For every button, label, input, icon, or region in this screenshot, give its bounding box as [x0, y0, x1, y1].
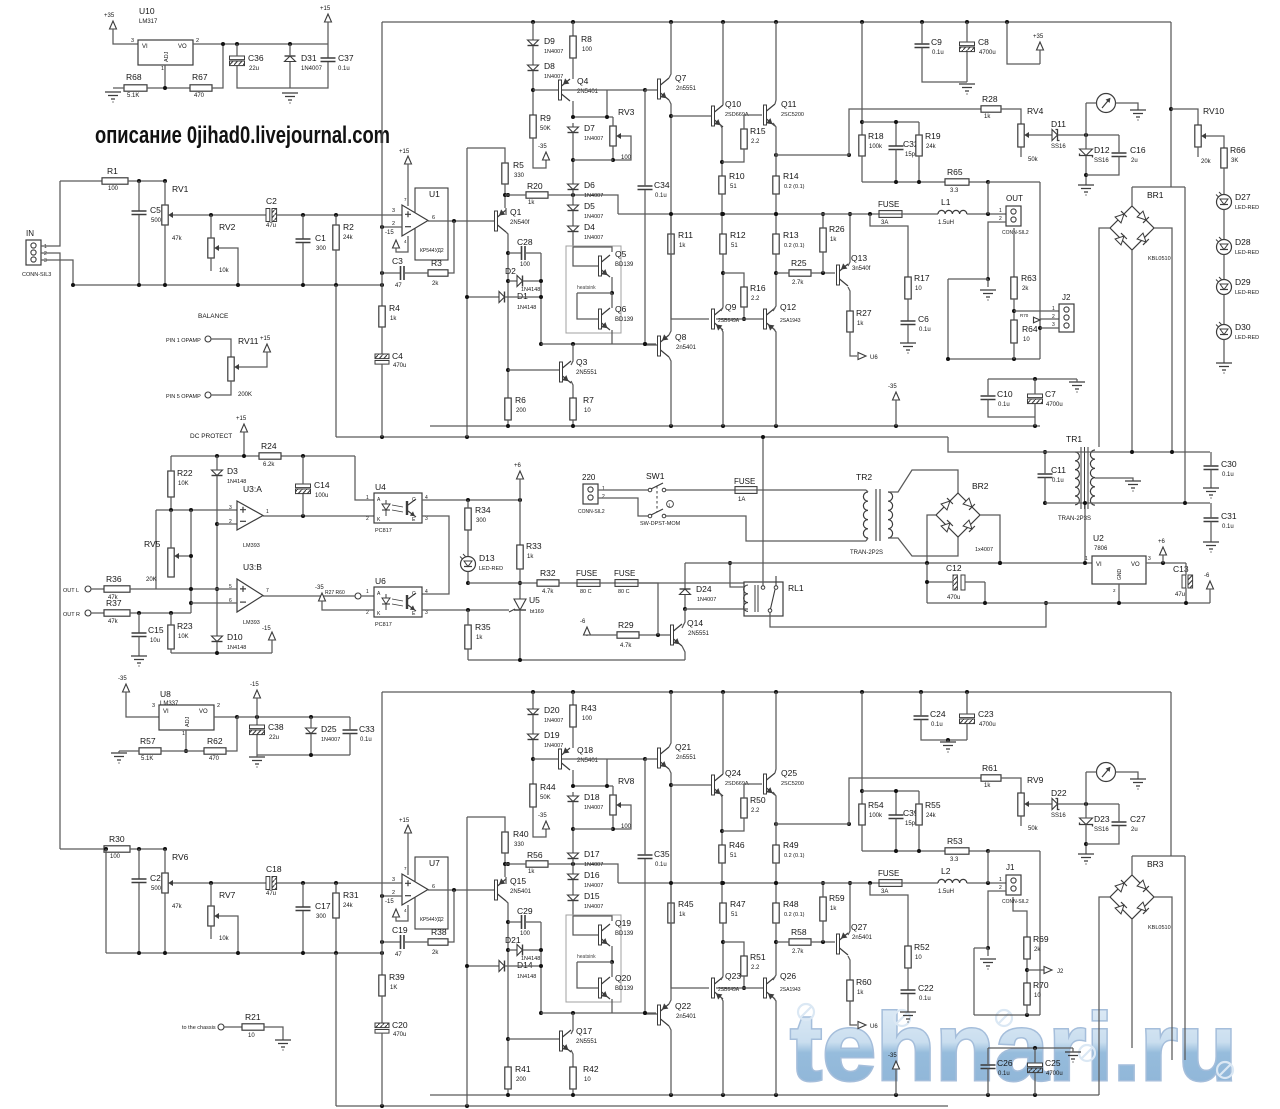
wire: [1223, 255, 1225, 280]
wire: [256, 698, 258, 725]
wire: [600, 582, 615, 584]
wire Q18 base: [533, 758, 558, 760]
wire R26 ties: [822, 214, 824, 273]
optocoupler U4: [366, 482, 428, 534]
svg-text:0.2 (0.1): 0.2 (0.1): [784, 184, 805, 190]
wire: [744, 114, 762, 116]
wire: [164, 65, 166, 88]
wire: [572, 1089, 574, 1095]
wire: [948, 358, 1040, 360]
svg-text:R45: R45: [678, 899, 694, 909]
svg-text:R8: R8: [581, 34, 592, 44]
svg-text:C3: C3: [392, 256, 403, 266]
wire: [91, 612, 104, 614]
led D29: [1216, 277, 1259, 296]
resistor R15: [741, 126, 766, 149]
wire: [179, 555, 191, 557]
wire: [722, 923, 724, 971]
power -15 arrow: [269, 632, 276, 640]
svg-text:R68: R68: [126, 72, 142, 82]
svg-text:OUT: OUT: [1006, 194, 1023, 203]
svg-text:C2: C2: [150, 873, 161, 883]
power +15 arrow: [320, 6, 332, 23]
wire Q23 collector: [721, 997, 723, 1095]
svg-text:-35: -35: [315, 585, 324, 591]
wire: [467, 572, 469, 584]
svg-text:2: 2: [196, 38, 199, 44]
wire: [523, 949, 541, 951]
node: [184, 749, 188, 753]
diode D4: [568, 222, 604, 241]
svg-text:RV5: RV5: [144, 539, 161, 549]
transistor Q15: [495, 876, 532, 901]
wire: [611, 946, 613, 962]
wire output line bottom: [618, 882, 879, 884]
svg-text:1N4007: 1N4007: [584, 235, 603, 241]
svg-text:SS16: SS16: [1051, 144, 1066, 150]
wire: [918, 156, 920, 182]
svg-text:R12: R12: [730, 230, 746, 240]
diode D15: [568, 891, 604, 910]
svg-text:Q26: Q26: [780, 971, 796, 981]
svg-text:U3:B: U3:B: [243, 562, 262, 572]
svg-text:BD139: BD139: [615, 317, 634, 323]
svg-text:C9: C9: [931, 37, 942, 47]
wire: [170, 510, 172, 548]
svg-text:C22: C22: [918, 983, 934, 993]
wire C27 loop: [1086, 804, 1119, 844]
node: [571, 827, 575, 831]
svg-text:TRAN-2P3S: TRAN-2P3S: [1058, 516, 1091, 522]
wire: [212, 44, 223, 88]
capacitor C39: [889, 808, 919, 827]
node: [571, 757, 647, 788]
heatsink box bottom: [566, 915, 621, 1002]
svg-text:0.1u: 0.1u: [919, 996, 931, 1002]
ground: [900, 1012, 916, 1019]
svg-text:Q18: Q18: [577, 745, 593, 755]
switch SW1 SW-DPST-MOM: [640, 471, 681, 527]
node: [571, 1011, 647, 1015]
wire VAS feed: [776, 109, 981, 155]
svg-text:80 C: 80 C: [618, 589, 630, 595]
resistor R2: [333, 222, 354, 250]
svg-text:2: 2: [602, 494, 605, 500]
svg-text:CONN-SIL2: CONN-SIL2: [1002, 899, 1029, 905]
wire +35 branch: [1007, 22, 1040, 64]
resistor R61: [981, 763, 1001, 789]
node: [503, 193, 510, 197]
svg-text:U8: U8: [160, 689, 171, 699]
svg-text:6: 6: [432, 884, 435, 890]
svg-text:C37: C37: [338, 53, 354, 63]
node: [1012, 309, 1016, 313]
svg-text:LED-RED: LED-RED: [479, 566, 503, 572]
svg-text:47: 47: [395, 952, 402, 958]
resistor R49: [773, 840, 805, 863]
wire right feed: [1170, 22, 1172, 187]
wire opamp out: [428, 889, 494, 891]
svg-text:RV11: RV11: [238, 336, 259, 346]
resistor R67: [190, 72, 212, 99]
svg-text:D14: D14: [517, 960, 533, 970]
svg-text:R4: R4: [389, 303, 400, 313]
node: [860, 120, 864, 124]
power +15 arrow: [260, 336, 271, 353]
capacitor C11: [1038, 465, 1067, 484]
svg-text:Q23: Q23: [725, 971, 741, 981]
wire C11: [1044, 452, 1046, 503]
wire: [1223, 168, 1225, 195]
svg-text:2u: 2u: [1131, 158, 1138, 164]
svg-text:2k: 2k: [1034, 947, 1041, 953]
svg-text:D4: D4: [584, 222, 595, 232]
svg-text:1N4007: 1N4007: [584, 805, 603, 811]
node: [894, 849, 990, 853]
svg-text:10: 10: [915, 955, 922, 961]
svg-text:bt169: bt169: [530, 609, 544, 615]
wire Q18 collector to Q21: [562, 758, 645, 760]
resistor R33: [517, 541, 542, 569]
wire Q17 collector: [571, 1026, 573, 1034]
svg-text:4700u: 4700u: [1046, 1071, 1063, 1077]
transistor Q10: [712, 99, 749, 127]
wire inner column: [466, 148, 468, 437]
wire Q26 emitter: [773, 971, 776, 980]
wire: [1027, 969, 1044, 971]
node: [1044, 601, 1048, 605]
potentiometer RV10: [1195, 106, 1225, 165]
node: [309, 753, 313, 757]
svg-text:RV4: RV4: [1027, 106, 1044, 116]
svg-text:0.1u: 0.1u: [360, 737, 372, 743]
wire: [722, 818, 744, 831]
wire: [1039, 851, 1041, 1015]
svg-text:J2: J2: [1057, 969, 1064, 975]
wire: [128, 180, 165, 182]
svg-text:220: 220: [582, 473, 596, 482]
svg-text:2.2: 2.2: [751, 296, 760, 302]
node: [380, 888, 456, 898]
svg-text:100: 100: [520, 262, 531, 268]
power -35 arrow: [888, 1053, 900, 1070]
svg-text:TRAN-2P2S: TRAN-2P2S: [850, 550, 883, 556]
svg-text:2n5401: 2n5401: [852, 935, 873, 941]
svg-text:1: 1: [266, 509, 269, 515]
node: [465, 948, 543, 1015]
capacitor C36: [230, 53, 264, 72]
resistor R59: [820, 893, 845, 921]
wire: [467, 296, 499, 298]
svg-text:U2: U2: [1093, 533, 1104, 543]
capacitor C17: [296, 901, 331, 920]
node: [1038, 326, 1042, 330]
wire bottom rail bottom channel: [430, 1094, 1099, 1096]
wire: [119, 750, 139, 752]
transformer TR1: [1058, 434, 1095, 522]
node: [380, 271, 384, 275]
wire: [572, 1013, 574, 1026]
svg-text:Q22: Q22: [675, 1001, 691, 1011]
node: [1033, 377, 1037, 381]
power +6 arrow: [514, 463, 524, 480]
svg-text:R69: R69: [1033, 934, 1049, 944]
svg-text:Q1: Q1: [510, 207, 522, 217]
node: [894, 120, 898, 124]
svg-text:D6: D6: [584, 180, 595, 190]
wire: [988, 222, 1006, 279]
svg-text:20k: 20k: [1201, 159, 1212, 165]
wire R17 tap: [870, 214, 908, 277]
node: [189, 587, 193, 591]
svg-text:D27: D27: [1235, 192, 1251, 202]
svg-text:Q21: Q21: [675, 742, 691, 752]
svg-text:D11: D11: [1051, 119, 1066, 129]
power +35 arrow: [1033, 34, 1044, 51]
ground: [900, 343, 916, 350]
svg-text:R54: R54: [868, 800, 884, 810]
potentiometer RV2: [208, 222, 236, 274]
svg-text:R70: R70: [1020, 313, 1029, 318]
svg-text:1k: 1k: [984, 783, 991, 789]
wire: [381, 996, 383, 1023]
resistor R30: [104, 834, 130, 860]
wire: [671, 254, 709, 319]
svg-text:5.1K: 5.1K: [141, 756, 153, 762]
svg-text:+15: +15: [320, 6, 331, 12]
svg-text:КР544УД2: КР544УД2: [420, 248, 444, 254]
svg-text:2: 2: [1052, 314, 1055, 320]
svg-text:D18: D18: [584, 792, 600, 802]
svg-text:1k: 1k: [679, 912, 686, 918]
wire: [918, 791, 920, 804]
wire Q9 emitter: [721, 302, 723, 311]
wire: [1029, 134, 1052, 136]
wire: [987, 182, 989, 214]
svg-text:10: 10: [1023, 337, 1030, 343]
wire: [138, 849, 140, 879]
diode D3: [212, 466, 247, 485]
node: [611, 158, 615, 162]
svg-text:FUSE: FUSE: [614, 569, 635, 578]
wire: [216, 642, 218, 653]
resistor R7: [570, 395, 594, 420]
svg-text:2: 2: [229, 519, 232, 525]
svg-text:1: 1: [999, 877, 1002, 883]
wire Q9 collector: [721, 328, 723, 426]
diode D1: [499, 291, 536, 311]
svg-text:2.2: 2.2: [751, 965, 760, 971]
node: [189, 554, 193, 605]
wire: [1029, 803, 1052, 805]
power -15 arrow: [250, 682, 261, 699]
connector J1 CONN-SIL2: [999, 863, 1029, 905]
svg-text:L2: L2: [941, 866, 951, 876]
resistor R36: [104, 574, 130, 601]
potentiometer RV4: [1018, 106, 1044, 163]
svg-text:2.7k: 2.7k: [792, 280, 804, 286]
svg-text:C23: C23: [978, 709, 994, 719]
svg-text:R6: R6: [515, 395, 526, 405]
wire: [721, 863, 723, 903]
svg-text:J1: J1: [1006, 863, 1015, 872]
wire: [508, 252, 521, 254]
node: [215, 454, 305, 458]
wire: [612, 815, 614, 829]
svg-text:D1: D1: [517, 291, 528, 301]
wire: [862, 121, 919, 123]
node J2 arrow: [1044, 967, 1064, 976]
wire Q8 collector: [669, 214, 671, 335]
svg-text:1N4148: 1N4148: [227, 645, 246, 651]
node: [720, 881, 724, 885]
diode D18: [568, 792, 604, 811]
node: [1084, 133, 1088, 137]
wire: [505, 863, 526, 865]
wire BR3 top: [1132, 855, 1185, 857]
node: [1083, 450, 1187, 565]
wire Q25 collector: [775, 692, 776, 773]
node: [466, 608, 470, 612]
node: [946, 738, 950, 742]
svg-text:C34: C34: [654, 180, 670, 190]
transistor Q17: [560, 1026, 598, 1052]
wire: [138, 181, 140, 211]
svg-text:U10: U10: [139, 6, 155, 16]
svg-text:1x4007: 1x4007: [975, 547, 993, 553]
wire: [973, 948, 975, 1015]
svg-text:1N4007: 1N4007: [697, 597, 716, 603]
svg-text:C33: C33: [359, 724, 375, 734]
resistor R35: [465, 622, 491, 649]
node: [301, 514, 305, 518]
wire: [1020, 816, 1022, 826]
wire: [1086, 102, 1097, 104]
svg-text:3: 3: [229, 505, 232, 511]
ground: [275, 1040, 291, 1047]
wire Q24 collector: [722, 692, 724, 774]
capacitor C30: [1204, 459, 1237, 478]
resistor R28: [981, 94, 1001, 120]
svg-text:+15: +15: [260, 336, 271, 342]
node chassis terminal: [218, 1024, 224, 1030]
node: [104, 847, 167, 851]
node: [669, 881, 872, 885]
svg-text:C36: C36: [248, 53, 264, 63]
diode D10: [212, 632, 247, 651]
svg-text:-35: -35: [888, 1053, 897, 1059]
wire: [572, 133, 574, 184]
svg-text:24k: 24k: [926, 813, 937, 819]
svg-text:500: 500: [151, 218, 162, 224]
wire: [572, 190, 574, 205]
relay RL1: [744, 576, 804, 616]
regulator U8 LM337: [152, 689, 220, 737]
ground: [1065, 1052, 1081, 1059]
wire: [907, 299, 909, 321]
svg-text:IN: IN: [26, 229, 34, 238]
wire Q17 base: [508, 1038, 559, 1040]
wire minus rail cap top: [988, 378, 1077, 380]
node: [720, 822, 851, 833]
node OUT R: [63, 610, 91, 618]
wire Q23 emitter: [721, 971, 723, 980]
svg-text:SW-DPST-MOM: SW-DPST-MOM: [640, 521, 681, 527]
transistor Q21: [658, 742, 697, 769]
inductor L2: [938, 866, 967, 895]
svg-text:LED-RED: LED-RED: [1235, 250, 1259, 256]
svg-text:0.1u: 0.1u: [655, 862, 667, 868]
ground: [1216, 363, 1232, 370]
potentiometer RV1: [162, 184, 189, 242]
svg-text:R27 R60: R27 R60: [325, 590, 345, 596]
wire Q3 base: [508, 369, 559, 371]
led D13: [460, 553, 503, 572]
wire: [671, 923, 709, 988]
svg-text:D22: D22: [1051, 788, 1067, 798]
node: [774, 212, 778, 216]
node: [894, 180, 990, 184]
svg-text:ADJ: ADJ: [185, 716, 191, 727]
node: [255, 715, 313, 719]
node: [137, 611, 173, 615]
resistor R9: [530, 113, 551, 138]
wire: [987, 948, 989, 956]
node: [611, 827, 615, 831]
node: [215, 651, 219, 655]
wire coil return: [744, 608, 748, 610]
wire: [572, 344, 574, 357]
wire Q14 base: [639, 634, 670, 636]
svg-text:R10: R10: [729, 171, 745, 181]
wire: [967, 882, 1006, 884]
wire C12: [927, 563, 985, 603]
svg-text:1K: 1K: [390, 985, 397, 991]
node: [1033, 1046, 1037, 1050]
capacitor C9: [915, 37, 944, 56]
svg-text:D7: D7: [584, 123, 595, 133]
wire: [526, 921, 541, 923]
wire: [113, 29, 138, 44]
capacitor C34: [638, 180, 670, 199]
wire: [532, 740, 534, 784]
transistor Q19: [599, 918, 635, 946]
resistor R17: [905, 273, 930, 299]
wire: [666, 516, 866, 541]
svg-text:VI: VI: [163, 709, 169, 715]
power +35 arrow: [104, 13, 117, 30]
svg-text:RV2: RV2: [219, 222, 236, 232]
svg-text:VO: VO: [1131, 562, 1140, 568]
capacitor C4: [375, 351, 406, 369]
svg-text:330: 330: [514, 173, 525, 179]
diode D21: [505, 935, 540, 962]
svg-text:Q7: Q7: [675, 73, 687, 83]
wire: [723, 942, 744, 956]
svg-text:2SA1943: 2SA1943: [780, 318, 801, 324]
diode D22: [1051, 788, 1067, 819]
svg-text:SS16: SS16: [1094, 158, 1109, 164]
wire: [1058, 134, 1119, 136]
svg-text:100: 100: [582, 716, 593, 722]
wire zobel line: [862, 181, 988, 183]
wire: [41, 260, 73, 285]
svg-text:OUT R: OUT R: [63, 612, 80, 618]
wire R52 tap: [870, 883, 908, 946]
wire: [548, 195, 618, 214]
wire: [355, 456, 374, 500]
wire Q11 collector: [775, 22, 776, 104]
